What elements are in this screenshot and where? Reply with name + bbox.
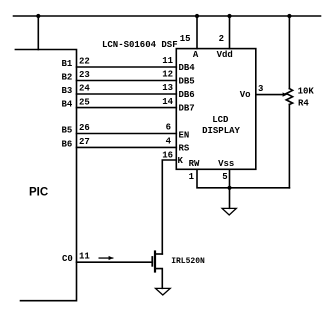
svg-text:16: 16 — [162, 151, 173, 161]
wire B4 to DB7 — [77, 107, 177, 109]
svg-text:14: 14 — [162, 97, 173, 107]
PIC box (partial) — [15, 50, 76, 301]
svg-text:RS: RS — [179, 143, 190, 153]
svg-text:LCN-S01604 DSF: LCN-S01604 DSF — [102, 40, 178, 50]
wire B3 to DB6 — [77, 93, 177, 95]
svg-text:IRL520N: IRL520N — [171, 257, 205, 266]
svg-text:1: 1 — [189, 172, 195, 182]
svg-text:B3: B3 — [62, 86, 73, 96]
svg-text:22: 22 — [79, 57, 90, 67]
svg-text:25: 25 — [79, 97, 90, 107]
svg-text:K: K — [178, 156, 184, 166]
wire pot bottom lead — [288, 104, 290, 187]
transistor Q1 gate bar — [151, 257, 153, 266]
svg-text:Vss: Vss — [218, 159, 234, 169]
svg-text:11: 11 — [79, 251, 90, 261]
svg-text:13: 13 — [162, 83, 173, 93]
svg-text:B5: B5 — [62, 126, 73, 136]
junction dot Vss/ground bus — [227, 186, 231, 190]
wire supply stub to PIC — [37, 16, 39, 50]
wire B5 to EN — [77, 133, 177, 135]
svg-text:11: 11 — [162, 56, 173, 66]
svg-text:Vdd: Vdd — [217, 50, 233, 60]
svg-text:2: 2 — [219, 34, 224, 44]
wire B6 to RS — [77, 146, 177, 148]
wire pot top lead — [288, 16, 290, 89]
svg-text:DISPLAY: DISPLAY — [202, 126, 240, 136]
svg-text:27: 27 — [79, 137, 90, 147]
svg-text:4: 4 — [166, 137, 172, 147]
svg-text:5: 5 — [222, 172, 227, 182]
junction dot rail/PIC — [36, 14, 40, 18]
svg-text:15: 15 — [180, 34, 191, 44]
wire Vo wiper — [256, 94, 284, 96]
svg-text:DB7: DB7 — [179, 104, 195, 114]
junction dot rail/Vdd — [227, 14, 231, 18]
svg-text:LCD: LCD — [212, 115, 229, 125]
svg-text:DB4: DB4 — [179, 63, 196, 73]
svg-text:23: 23 — [79, 70, 90, 80]
svg-text:R4: R4 — [298, 99, 309, 109]
potentiometer R4 zigzag — [286, 89, 292, 105]
svg-text:26: 26 — [79, 123, 90, 133]
svg-text:B4: B4 — [62, 100, 73, 110]
svg-text:24: 24 — [79, 84, 90, 94]
transistor Q1 source lead — [155, 269, 162, 289]
svg-text:Vo: Vo — [240, 90, 251, 100]
wire Vss to ground — [229, 169, 231, 208]
transistor Q1 channel bar — [154, 252, 156, 272]
svg-text:DB5: DB5 — [179, 77, 195, 87]
junction dot rail/A — [195, 14, 199, 18]
svg-text:10K: 10K — [298, 87, 315, 97]
svg-text:12: 12 — [162, 70, 173, 80]
LCD module U1 box — [176, 49, 256, 170]
wire A pin to rail — [196, 16, 198, 49]
svg-text:6: 6 — [166, 123, 171, 133]
wire ground bus — [197, 169, 289, 188]
wiper arrowhead — [283, 92, 288, 96]
svg-text:B2: B2 — [62, 73, 73, 83]
svg-text:C0: C0 — [62, 254, 73, 264]
svg-text:PIC: PIC — [29, 187, 48, 199]
svg-text:DB6: DB6 — [179, 90, 195, 100]
svg-text:3: 3 — [258, 84, 263, 94]
wire Vdd pin to rail — [229, 16, 231, 49]
svg-text:A: A — [193, 50, 199, 60]
svg-text:RW: RW — [189, 159, 200, 169]
svg-text:EN: EN — [179, 130, 190, 140]
wire +5V top rail — [14, 15, 321, 17]
transistor Q1 drain lead — [155, 253, 162, 255]
ground symbol at Vss — [222, 208, 236, 215]
junction dot rail/pot — [287, 14, 291, 18]
ground symbol at source — [156, 288, 171, 295]
wire B2 to DB5 — [77, 80, 177, 82]
wire B1 to DB4 — [77, 66, 177, 68]
wire K pin to drain — [162, 160, 176, 254]
svg-text:B1: B1 — [62, 59, 73, 69]
wire C0 to gate — [77, 261, 153, 263]
current arrow on gate wire — [99, 257, 114, 258]
svg-text:B6: B6 — [62, 139, 73, 149]
